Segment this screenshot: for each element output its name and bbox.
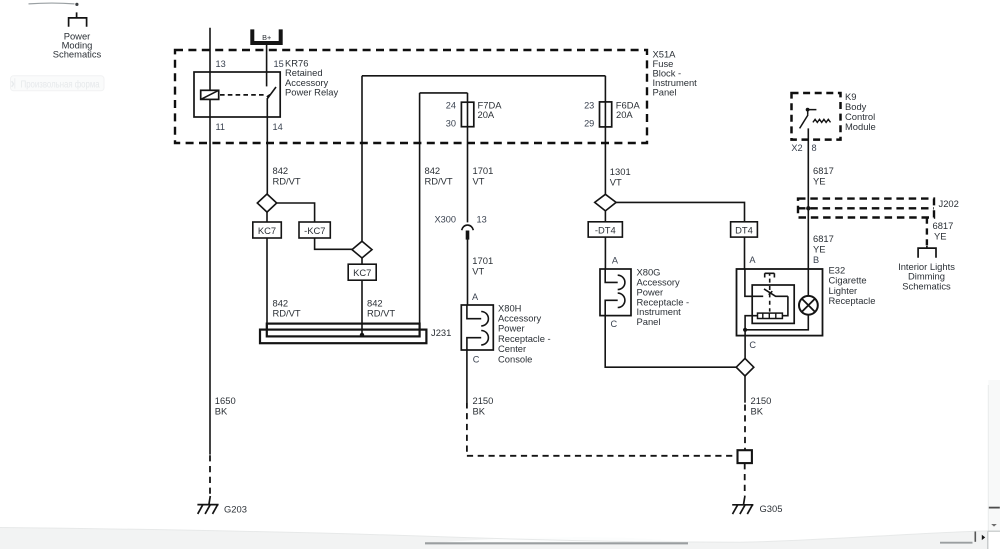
svg-text:VT: VT bbox=[610, 176, 622, 187]
svg-text:8: 8 bbox=[812, 143, 817, 153]
svg-text:Power Relay: Power Relay bbox=[285, 86, 338, 97]
svg-text:X2: X2 bbox=[791, 143, 802, 153]
svg-text:Panel: Panel bbox=[653, 87, 677, 98]
svg-text:11: 11 bbox=[216, 122, 226, 132]
svg-text:X300: X300 bbox=[435, 214, 456, 224]
svg-text:Panel: Panel bbox=[637, 316, 661, 327]
svg-text:J202: J202 bbox=[939, 198, 959, 209]
svg-text:Schematics: Schematics bbox=[53, 48, 102, 59]
svg-text:30: 30 bbox=[446, 119, 456, 129]
svg-text:RD/VT: RD/VT bbox=[273, 175, 301, 186]
svg-text:14: 14 bbox=[273, 122, 283, 132]
svg-text:6817: 6817 bbox=[813, 165, 834, 176]
svg-text:RD/VT: RD/VT bbox=[367, 308, 395, 319]
svg-text:DT4: DT4 bbox=[735, 225, 753, 236]
svg-text:-KC7: -KC7 bbox=[304, 225, 325, 236]
svg-text:G305: G305 bbox=[760, 503, 783, 514]
svg-text:2150: 2150 bbox=[751, 395, 772, 406]
svg-text:6817: 6817 bbox=[933, 220, 954, 231]
svg-text:VT: VT bbox=[473, 175, 485, 186]
svg-text:13: 13 bbox=[216, 59, 226, 69]
svg-text:1650: 1650 bbox=[215, 395, 236, 406]
svg-text:B: B bbox=[813, 255, 819, 265]
svg-text:1701: 1701 bbox=[472, 255, 493, 266]
svg-text:13: 13 bbox=[477, 214, 487, 224]
svg-text:C: C bbox=[611, 319, 618, 329]
svg-text:KC7: KC7 bbox=[258, 225, 276, 236]
svg-text:G203: G203 bbox=[224, 503, 247, 514]
svg-text:1701: 1701 bbox=[473, 165, 494, 176]
svg-text:YE: YE bbox=[813, 175, 826, 186]
svg-text:Произвольная форма: Произвольная форма bbox=[21, 79, 100, 91]
svg-text:1301: 1301 bbox=[610, 166, 631, 177]
svg-text:2150: 2150 bbox=[473, 395, 494, 406]
svg-text:A: A bbox=[472, 292, 479, 302]
svg-text:A: A bbox=[749, 255, 756, 265]
svg-text:842: 842 bbox=[273, 297, 289, 308]
svg-text:-DT4: -DT4 bbox=[595, 225, 616, 236]
svg-text:C: C bbox=[749, 340, 756, 350]
svg-text:BK: BK bbox=[215, 405, 228, 416]
svg-text:Module: Module bbox=[845, 121, 876, 132]
svg-text:23: 23 bbox=[584, 100, 594, 110]
svg-text:20A: 20A bbox=[616, 109, 633, 120]
svg-text:J231: J231 bbox=[431, 327, 451, 338]
svg-text:A: A bbox=[612, 255, 619, 265]
svg-text:842: 842 bbox=[273, 165, 289, 176]
svg-text:YE: YE bbox=[813, 243, 826, 254]
svg-text:842: 842 bbox=[425, 165, 441, 176]
svg-text:BK: BK bbox=[751, 405, 764, 416]
svg-text:B+: B+ bbox=[262, 33, 271, 42]
svg-text:BK: BK bbox=[473, 405, 486, 416]
svg-text:6817: 6817 bbox=[813, 233, 834, 244]
svg-text:RD/VT: RD/VT bbox=[273, 308, 301, 319]
svg-text:VT: VT bbox=[472, 265, 484, 276]
svg-text:15: 15 bbox=[274, 59, 284, 69]
svg-text:842: 842 bbox=[367, 297, 383, 308]
svg-text:Schematics: Schematics bbox=[902, 281, 951, 292]
svg-text:Console: Console bbox=[498, 353, 532, 364]
svg-text:RD/VT: RD/VT bbox=[425, 175, 453, 186]
svg-text:KC7: KC7 bbox=[353, 267, 371, 278]
svg-text:24: 24 bbox=[446, 100, 456, 110]
svg-text:C: C bbox=[473, 355, 480, 365]
svg-text:29: 29 bbox=[584, 119, 594, 129]
svg-text:Receptacle: Receptacle bbox=[829, 295, 876, 306]
svg-text:20A: 20A bbox=[478, 109, 495, 120]
svg-text:YE: YE bbox=[934, 230, 947, 241]
